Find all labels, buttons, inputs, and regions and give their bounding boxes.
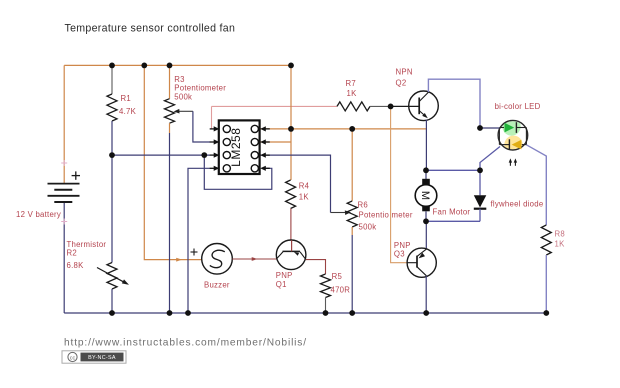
wire: node to LED left xyxy=(480,127,499,129)
transistor Q1 PNP xyxy=(276,240,306,270)
svg-text:Q1: Q1 xyxy=(276,280,287,289)
wire: battery positive riser xyxy=(63,65,65,183)
resistor R5 470R xyxy=(321,274,331,298)
svg-text:NPN: NPN xyxy=(396,68,413,77)
pin 2 stub xyxy=(210,141,214,143)
svg-text:1K: 1K xyxy=(555,240,566,249)
svg-text:500k: 500k xyxy=(359,223,377,232)
wire: Q2 collector loop to LED xyxy=(428,79,480,128)
wire: thermistor to ground rail xyxy=(111,289,113,313)
potentiometer R6 500k xyxy=(347,201,357,227)
cc license badge xyxy=(62,351,126,363)
svg-text:http://www.instructables.com/m: http://www.instructables.com/member/Nobi… xyxy=(64,338,307,349)
svg-text:1K: 1K xyxy=(299,193,310,202)
svg-text:R2: R2 xyxy=(67,249,77,258)
wire: R3 wiper to R7 and pin1 xyxy=(212,105,338,107)
pin 4 stub xyxy=(210,167,214,169)
svg-text:LM258: LM258 xyxy=(229,128,243,167)
wire: R4 to Q1 collector xyxy=(290,209,292,241)
svg-text:flywheel diode: flywheel diode xyxy=(491,200,544,209)
svg-text:Buzzer: Buzzer xyxy=(204,281,230,290)
resistor R8 1K xyxy=(541,225,551,255)
wire: LED lower-left to diode node xyxy=(480,147,500,171)
pin 7 stub xyxy=(266,141,270,143)
svg-text:R5: R5 xyxy=(332,272,343,281)
wire: Q2 base node to Q3 base xyxy=(391,106,408,262)
thermistor R2 6.8K xyxy=(107,263,117,290)
wire: motor bottom to Q3 collector xyxy=(425,221,427,249)
pin 5 stub xyxy=(266,167,270,169)
svg-text:6.8K: 6.8K xyxy=(67,261,85,270)
wire: R3 wiper to pin2 xyxy=(193,111,210,142)
transistor Q2 NPN xyxy=(409,91,439,121)
wire: buzzer to Q1 base xyxy=(232,258,276,260)
wire: pin8 supply line xyxy=(260,128,426,130)
wire: motor bottom node to diode xyxy=(426,220,480,222)
wire: ground bottom rail xyxy=(64,312,546,314)
wire: supply to R6 xyxy=(351,129,353,201)
resistor R7 1K xyxy=(337,102,370,111)
wire: pin5 feedback loop xyxy=(204,155,271,189)
wire: R7 to Q2 base xyxy=(370,105,391,107)
wire: R6 bottom to ground rail xyxy=(351,227,353,235)
svg-text:bi-color LED: bi-color LED xyxy=(495,102,541,111)
wire: battery negative to ground rail xyxy=(63,202,65,313)
transistor Q3 PNP xyxy=(407,248,436,277)
wire: rail to buzzer plus xyxy=(144,65,201,259)
svg-text:Potentiometer: Potentiometer xyxy=(174,84,226,93)
svg-text:Potentio meter: Potentio meter xyxy=(359,211,413,220)
wire: pin7 stub link xyxy=(260,141,291,143)
wire: +12V top rail xyxy=(64,64,291,66)
wire: pin4 to ground rail xyxy=(188,168,210,313)
svg-text:Q3: Q3 xyxy=(394,250,405,259)
wire: Q1 emitter to R5 xyxy=(306,260,326,274)
pin 1 stub xyxy=(210,128,214,130)
buzzer LS1 xyxy=(202,243,233,274)
svg-text:Fan Motor: Fan Motor xyxy=(433,208,471,217)
svg-text:R7: R7 xyxy=(346,79,356,88)
wire: R8 to ground rail xyxy=(545,255,547,313)
svg-text:cc: cc xyxy=(70,355,76,361)
wire: rail to R3 xyxy=(169,65,171,98)
svg-text:R4: R4 xyxy=(299,182,310,191)
wire: R1 bottom to node xyxy=(111,121,113,263)
op-amp U1 LM258 xyxy=(210,120,270,174)
resistor R1 4.7K xyxy=(107,94,117,121)
bi-color LED D1 xyxy=(498,117,528,154)
pin 3 stub xyxy=(210,154,214,156)
wire: node to pin3 xyxy=(112,154,210,156)
svg-text:Temperature sensor controlled: Temperature sensor controlled fan xyxy=(65,23,236,35)
svg-text:R6: R6 xyxy=(358,201,368,210)
probe mark battery top xyxy=(61,160,67,166)
battery B1 12V xyxy=(48,171,81,202)
svg-text:470R: 470R xyxy=(331,286,351,295)
svg-text:4.7K: 4.7K xyxy=(119,107,137,116)
flywheel diode D2 xyxy=(479,170,481,195)
wire: R3 bottom to ground rail xyxy=(169,123,171,133)
svg-text:PNP: PNP xyxy=(276,271,293,280)
pin 6 stub xyxy=(266,154,270,156)
wire: pin6 to R6 wiper xyxy=(260,155,331,212)
wire: LED right to R8 xyxy=(526,145,546,225)
wire: Q3 emitter to ground rail xyxy=(425,276,427,313)
svg-text:Q2: Q2 xyxy=(396,79,407,88)
probe mark battery bottom xyxy=(61,219,67,225)
svg-text:12 V battery: 12 V battery xyxy=(16,210,61,219)
wire: rail drop to R4 via pin7 xyxy=(290,65,292,180)
svg-text:1K: 1K xyxy=(347,89,358,98)
wire: R1 top lead xyxy=(111,65,113,94)
svg-text:R1: R1 xyxy=(121,94,131,103)
svg-text:BY-NC-SA: BY-NC-SA xyxy=(88,355,116,361)
LED emission arrows xyxy=(510,160,515,166)
potentiometer R3 500k xyxy=(165,99,175,124)
svg-text:500k: 500k xyxy=(174,93,192,102)
resistor R4 1K xyxy=(286,180,296,209)
pin 8 stub xyxy=(266,128,270,130)
wire: R5 to ground rail xyxy=(325,298,327,314)
wire: motor top node to LED node xyxy=(426,169,480,171)
svg-text:M: M xyxy=(419,191,431,200)
wire: Q2 emitter to motor xyxy=(425,120,427,171)
junction dots xyxy=(109,63,115,69)
fan motor M1 xyxy=(425,170,427,179)
svg-text:R8: R8 xyxy=(555,230,565,239)
